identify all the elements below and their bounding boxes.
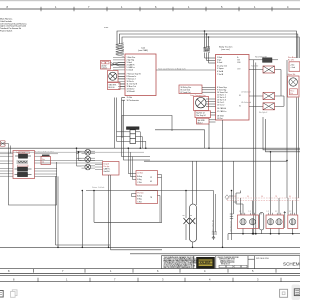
- junction dots accumulator rail: [140, 147, 147, 149]
- svg-text:Gnd Shl: Gnd Shl: [104, 171, 111, 173]
- relay K1: [15, 152, 31, 158]
- svg-text:Brk Press 07: Brk Press 07: [231, 221, 233, 231]
- wire accumulator stubs: [117, 132, 146, 148]
- bottom zone numbers row2: [13, 278, 259, 282]
- inductor coil L1: [116, 43, 124, 56]
- svg-text:Frame Switch: Frame Switch: [0, 30, 13, 33]
- U2 pin labels: [217, 56, 228, 120]
- relay module K3 red box: [179, 85, 202, 94]
- solenoid valve V2: [241, 92, 284, 100]
- svg-text:56: 56: [261, 196, 263, 198]
- wire crossover C1 to U1: [111, 63, 126, 67]
- svg-text:12: 12: [234, 196, 236, 198]
- svg-text:19 Ret: 19 Ret: [217, 117, 223, 120]
- wire lamp row ground rail: [228, 229, 300, 241]
- junction dots rails: [57, 247, 223, 249]
- svg-text:6 Sol A: 6 Sol A: [217, 70, 224, 73]
- bottom zone ticks row1: [34, 269, 277, 273]
- svg-text:SCHEM: SCHEM: [283, 262, 300, 267]
- solenoid valve V1: [249, 64, 281, 73]
- svg-text:45: 45: [150, 181, 152, 183]
- svg-text:1 2: 1 2: [275, 211, 277, 213]
- pressure sensor chain PS2: [230, 190, 233, 240]
- logo block: [197, 257, 215, 268]
- wire S2 feed stubs: [132, 194, 137, 197]
- svg-text:Bz 12V: Bz 12V: [288, 60, 295, 62]
- svg-text:UNLESS OTHERWISE SPECIFIED: UNLESS OTHERWISE SPECIFIED: [218, 257, 240, 259]
- svg-text:Bat Feed 30A Cab Main: Bat Feed 30A Cab Main: [35, 151, 54, 154]
- wire DM1 drops: [109, 175, 111, 250]
- connector C2 red box: [108, 83, 121, 90]
- svg-text:KALMAR: KALMAR: [200, 262, 211, 265]
- svg-text:B Sig: B Sig: [137, 179, 141, 181]
- junction dot S1 feed: [128, 147, 130, 149]
- pressure sensor chain PS1: [212, 191, 217, 241]
- small post between: [284, 211, 286, 228]
- label Body Traction module: [219, 46, 233, 52]
- U1 bottom pins: [127, 96, 140, 102]
- lamp pin stubs: [241, 213, 294, 215]
- wire C4 C5 to U2: [209, 112, 216, 122]
- svg-text:1 2: 1 2: [267, 211, 269, 213]
- motor M1 red box right: [288, 73, 300, 97]
- svg-text:Lvl Sen: Lvl Sen: [137, 173, 143, 175]
- lamp pin number smudges: [239, 211, 291, 213]
- ECU connector box U1 (left red box): [125, 54, 156, 96]
- horn H1 right of U2: [249, 57, 278, 63]
- top zone ticks: [41, 7, 272, 11]
- gauge G2 circle: [82, 156, 96, 162]
- svg-text:78: 78: [275, 196, 277, 198]
- harness dashed band: [227, 198, 300, 200]
- work lamp pair WL1 red box: [238, 215, 259, 229]
- svg-text:PART NO 8500221 ASSY MAIN HARN: PART NO 8500221 ASSY MAIN HARN XL2: [164, 266, 194, 269]
- label Cab module: [138, 48, 148, 53]
- bottom zone ticks row2: [38, 278, 281, 282]
- legend note text top-left: [0, 18, 28, 33]
- fuse relay panel FB1 red box: [13, 151, 35, 179]
- svg-text:1 2: 1 2: [249, 211, 251, 213]
- svg-text:1 2: 1 2: [239, 211, 241, 213]
- wire tank feeds: [186, 161, 197, 247]
- viewer icon expand button: [280, 289, 288, 297]
- junction dots ground rail: [242, 233, 293, 235]
- diode module D1 red box: [41, 155, 51, 165]
- svg-text:1 2: 1 2: [289, 211, 291, 213]
- wire coil L2 to connector J2: [205, 53, 216, 64]
- connector C4 red box: [195, 111, 211, 118]
- wire U1 drop to bus lines: [115, 98, 117, 149]
- svg-text:OUT: OUT: [237, 69, 241, 71]
- wire long verticals right-center: [254, 60, 256, 234]
- wire U1 bottom drops: [122, 98, 126, 101]
- junction dot tank rail: [185, 190, 187, 192]
- accumulator A1: [127, 127, 140, 144]
- svg-text:17 CAN Lo: 17 CAN Lo: [217, 110, 226, 113]
- svg-text:78: 78: [150, 197, 152, 199]
- wire V-group verticals: [281, 60, 299, 215]
- svg-text:(xxx xxx): (xxx xxx): [221, 49, 230, 51]
- hydraulic tank T1: [190, 204, 197, 242]
- valve crosses at tank: [183, 216, 196, 225]
- svg-text:12: 12: [150, 177, 152, 179]
- inductor coil L2: [204, 46, 211, 52]
- wire U2 bottom drop: [155, 120, 223, 247]
- svg-text:Rtn Spl x2: Rtn Spl x2: [259, 111, 267, 114]
- svg-text:C Ret: C Ret: [137, 200, 142, 203]
- title block notes text: [164, 256, 199, 269]
- svg-text:3 Gnd: 3 Gnd: [217, 62, 222, 64]
- note diamond D5: [225, 195, 229, 200]
- wire power bus (3 lines): [117, 31, 299, 58]
- work lamp WL3 red box: [288, 215, 298, 229]
- svg-text:Disp A: Disp A: [104, 162, 110, 165]
- wire K3 to U2: [202, 87, 216, 92]
- solenoid valve V3: [241, 102, 284, 114]
- svg-text:(xxx CAN): (xxx CAN): [138, 49, 148, 52]
- svg-text:Pwr Sup 04: Pwr Sup 04: [196, 115, 205, 117]
- sensor module S2 red box: [136, 191, 158, 204]
- svg-text:Sig Ret 12: Sig Ret 12: [196, 112, 204, 115]
- top zone numbers: [7, 5, 290, 9]
- wire long rail low: [0, 191, 300, 254]
- svg-text:C3 D4: C3 D4: [102, 68, 107, 70]
- bottom zone numbers row1: [8, 269, 254, 273]
- U1 pin stub wires: [113, 57, 125, 89]
- svg-text:A Sup: A Sup: [137, 175, 142, 178]
- svg-text:Prs Sen: Prs Sen: [137, 193, 143, 195]
- svg-text:Lk Solenoid: Lk Solenoid: [241, 92, 250, 94]
- U2 right column labels: [237, 57, 242, 107]
- wire S boxes right stubs: [158, 175, 162, 223]
- viewer icon page left partial: [0, 291, 3, 298]
- svg-text:num: num: [104, 27, 108, 29]
- svg-text:B Sig: B Sig: [137, 199, 141, 201]
- svg-text:Sens Drain 04: Sens Drain 04: [213, 220, 215, 231]
- enclosure outline left: [9, 151, 59, 248]
- wire S1 feed verticals: [128, 148, 136, 179]
- junction dots drops: [270, 151, 288, 161]
- display module DM1 red box: [103, 162, 120, 176]
- wire drops into lamp row: [229, 152, 293, 215]
- enclosure outline cab floor: [122, 116, 172, 139]
- connector J4 circular: [194, 97, 209, 111]
- relay K2 stack: [15, 165, 32, 177]
- svg-text:Twist Sol: Twist Sol: [251, 64, 259, 67]
- sheet top border line: [0, 8, 300, 10]
- connector J3 circular: [108, 71, 119, 83]
- svg-text:Ulk Solenoid: Ulk Solenoid: [241, 102, 251, 104]
- junction dots gauge feeds: [76, 147, 80, 153]
- U1 pin labels: [127, 56, 142, 93]
- wire bus drop to coil L2: [205, 31, 209, 48]
- sensor module S1 red box: [136, 171, 158, 185]
- wire gauge feed verticals: [77, 148, 82, 166]
- svg-text:+ Bat: + Bat: [290, 63, 295, 66]
- svg-text:Twist Lock Harness to Body 1.2: Twist Lock Harness to Body 1.25: [158, 67, 186, 70]
- viewer icon copy pages: [11, 290, 18, 298]
- svg-text:C Ret: C Ret: [137, 181, 142, 184]
- connector C1 small red box: [101, 61, 111, 70]
- svg-text:15 Out 2: 15 Out 2: [217, 104, 224, 107]
- page gap line top: [0, 0, 300, 1]
- viewer button grid dark: [292, 285, 301, 300]
- wire X1 drop: [0, 144, 11, 154]
- junction dot mid: [208, 147, 210, 149]
- svg-text:14 Shield: 14 Shield: [127, 91, 135, 93]
- gauge G3 circle: [82, 164, 96, 170]
- reservoir capsule between lamps: [259, 213, 263, 231]
- harness band labels: [234, 196, 291, 198]
- junction dots bus taps: [204, 30, 210, 38]
- connector C5 red box: [197, 118, 210, 124]
- svg-text:6 Out A: 6 Out A: [127, 69, 134, 72]
- gauge G1 circle: [82, 149, 96, 155]
- svg-text:12: 12: [42, 162, 44, 164]
- wire long horizontal rails mid: [0, 98, 300, 162]
- ECU connector box U2 (right red box): [216, 55, 250, 121]
- svg-text:Body Traction: Body Traction: [219, 46, 233, 49]
- svg-text:16 CAN Hi: 16 CAN Hi: [217, 107, 227, 110]
- wire J3/C2 stubs to U1: [118, 74, 125, 87]
- beacon module R1 red box top-right: [288, 56, 300, 71]
- bottom border: sheet1 inner line: [0, 269, 300, 282]
- svg-text:CAN H L: CAN H L: [104, 168, 111, 171]
- svg-text:− Gnd: − Gnd: [290, 67, 295, 69]
- svg-text:7 Sol B: 7 Sol B: [217, 74, 224, 76]
- svg-text:Pwr Ign: Pwr Ign: [104, 165, 110, 168]
- fuse F1: [17, 161, 29, 163]
- svg-text:16 Tachometer: 16 Tachometer: [127, 99, 140, 102]
- wire U1 out right long label: [156, 67, 216, 70]
- title block frame: [162, 256, 301, 269]
- work lamp pair WL2 red box: [266, 215, 284, 229]
- wire FB1 right rails: [35, 154, 104, 177]
- svg-text:87 Load Out: 87 Load Out: [181, 91, 191, 94]
- svg-text:34: 34: [247, 196, 249, 198]
- svg-text:15 Ret: 15 Ret: [127, 96, 133, 99]
- svg-text:Driver CalLab: Driver CalLab: [92, 187, 105, 189]
- svg-text:BLK 2: BLK 2: [198, 122, 203, 124]
- title block right notes: [218, 257, 240, 266]
- svg-text:5 Spare: 5 Spare: [217, 67, 224, 70]
- wire gauges to DM1: [95, 164, 103, 169]
- svg-text:90: 90: [289, 196, 291, 198]
- connector X1 left edge: [0, 141, 9, 146]
- title block small cells: [219, 265, 247, 268]
- svg-text:S1: S1: [239, 95, 241, 97]
- svg-text:BLK 00: BLK 00: [109, 87, 115, 89]
- svg-text:A Sup: A Sup: [137, 195, 142, 198]
- svg-text:S2: S2: [239, 105, 241, 107]
- wire J4 to U2 pins: [206, 99, 216, 107]
- junction dots low rails: [82, 190, 95, 192]
- svg-text:Prk: Prk: [290, 92, 293, 95]
- wire FB1 left stubs: [0, 154, 13, 176]
